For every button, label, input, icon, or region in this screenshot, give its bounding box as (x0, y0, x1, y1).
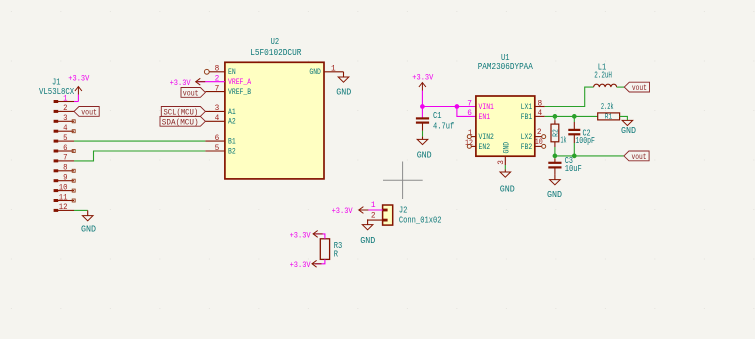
svg-text:EN1: EN1 (479, 112, 491, 122)
svg-text:GND: GND (309, 67, 321, 77)
svg-text:L5F0102DCUR: L5F0102DCUR (250, 48, 302, 58)
svg-text:+3.3V: +3.3V (412, 72, 433, 82)
svg-text:FB2: FB2 (521, 142, 533, 152)
svg-text:vout: vout (632, 84, 647, 93)
svg-text:3: 3 (63, 115, 68, 123)
svg-text:GND: GND (417, 150, 432, 161)
svg-text:C1: C1 (433, 111, 442, 121)
svg-text:5: 5 (215, 145, 220, 153)
svg-text:9: 9 (63, 175, 68, 183)
svg-text:2: 2 (537, 129, 542, 137)
svg-text:GND: GND (502, 142, 512, 154)
svg-text:vout: vout (183, 90, 199, 99)
svg-text:LX2: LX2 (521, 132, 533, 142)
svg-text:VIN2: VIN2 (479, 132, 494, 142)
svg-text:+3.3V: +3.3V (290, 230, 311, 240)
svg-text:R2: R2 (552, 129, 560, 137)
svg-text:A2: A2 (228, 117, 236, 127)
svg-text:3: 3 (215, 105, 220, 113)
svg-text:2.2k: 2.2k (601, 102, 614, 112)
svg-text:GND: GND (621, 125, 636, 136)
svg-text:+3.3V: +3.3V (68, 74, 89, 84)
svg-text:8: 8 (538, 100, 543, 108)
svg-text:R: R (334, 249, 339, 259)
svg-text:1: 1 (331, 65, 336, 73)
svg-text:6: 6 (467, 110, 472, 118)
svg-text:GND: GND (500, 183, 515, 194)
svg-text:R1: R1 (605, 114, 613, 122)
svg-text:SDA(MCU): SDA(MCU) (162, 117, 199, 127)
svg-text:2.2uH: 2.2uH (594, 71, 612, 81)
svg-text:2: 2 (215, 76, 220, 84)
svg-text:VREF_A: VREF_A (228, 77, 252, 87)
svg-text:8: 8 (215, 66, 220, 74)
svg-text:4: 4 (538, 110, 543, 118)
svg-text:4: 4 (215, 115, 220, 123)
svg-text:U2: U2 (271, 37, 280, 47)
svg-text:+3.3V: +3.3V (170, 78, 191, 88)
svg-text:B1: B1 (228, 137, 236, 147)
svg-text:Conn_01x02: Conn_01x02 (399, 216, 442, 226)
svg-text:B2: B2 (228, 146, 236, 156)
svg-text:1k: 1k (561, 136, 567, 146)
svg-text:GND: GND (360, 235, 375, 246)
svg-text:A1: A1 (228, 107, 236, 117)
svg-text:FB1: FB1 (521, 112, 533, 122)
svg-text:+3.3V: +3.3V (290, 260, 311, 270)
svg-text:3: 3 (498, 160, 506, 165)
svg-text:PAM2306DYPAA: PAM2306DYPAA (478, 62, 534, 72)
svg-text:7: 7 (467, 100, 472, 108)
svg-text:LX1: LX1 (521, 102, 533, 112)
svg-text:1: 1 (371, 202, 376, 210)
svg-text:100pF: 100pF (575, 136, 595, 146)
svg-text:VIN1: VIN1 (479, 102, 494, 112)
svg-text:5: 5 (63, 135, 68, 143)
svg-text:vout: vout (81, 109, 97, 118)
svg-text:4.7uf: 4.7uf (433, 121, 454, 131)
svg-text:12: 12 (59, 204, 68, 212)
svg-text:J2: J2 (399, 206, 408, 216)
svg-text:10uF: 10uF (565, 164, 582, 174)
svg-text:EN: EN (228, 67, 236, 77)
svg-text:GND: GND (336, 87, 351, 98)
svg-text:VL53L8CX: VL53L8CX (39, 87, 75, 97)
svg-text:vout: vout (632, 153, 647, 162)
svg-text:11: 11 (59, 194, 68, 202)
svg-text:GND: GND (81, 224, 96, 235)
svg-text:VREF_B: VREF_B (228, 87, 251, 97)
svg-text:7: 7 (63, 155, 68, 163)
svg-text:4: 4 (63, 125, 68, 133)
svg-text:10: 10 (59, 184, 68, 192)
svg-text:EN2: EN2 (479, 142, 491, 152)
svg-text:+3.3V: +3.3V (332, 206, 353, 216)
svg-text:GND: GND (547, 189, 562, 200)
svg-text:8: 8 (63, 165, 68, 173)
svg-text:7: 7 (215, 85, 220, 93)
svg-text:2: 2 (63, 105, 68, 113)
svg-text:6: 6 (63, 145, 68, 153)
svg-text:6: 6 (215, 135, 220, 143)
svg-text:2: 2 (371, 212, 376, 220)
